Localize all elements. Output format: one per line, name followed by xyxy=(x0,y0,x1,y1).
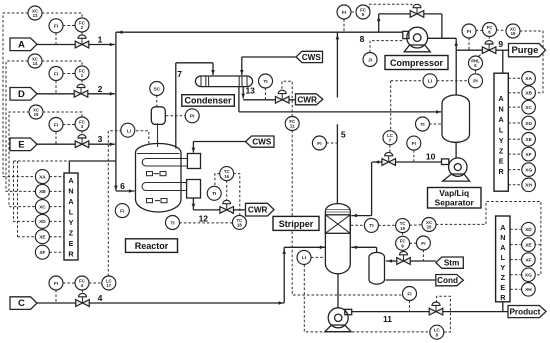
dashed signal LI to LC7 xyxy=(390,81,392,131)
svg-text:A: A xyxy=(498,94,503,103)
svg-text:10: 10 xyxy=(426,152,436,162)
svg-text:3: 3 xyxy=(98,134,103,144)
valve reactor CWR xyxy=(220,200,234,213)
dashed signal PHL6 to PI xyxy=(475,70,477,74)
svg-text:A: A xyxy=(500,243,505,252)
svg-text:L: L xyxy=(499,125,504,134)
valve separator underflow xyxy=(382,152,396,165)
instrument analyzer-left XE xyxy=(35,230,49,244)
flag feed A xyxy=(10,38,37,51)
instrument FC3 xyxy=(75,117,89,131)
wire condensate line xyxy=(386,279,436,281)
svg-text:Compressor: Compressor xyxy=(390,58,444,68)
instrument FC1 xyxy=(75,66,89,80)
separator pump base xyxy=(443,174,470,181)
stripper pump base xyxy=(325,325,351,332)
wire recycle header stream 8 xyxy=(116,31,403,33)
instrument XC13 xyxy=(28,6,42,20)
dashed signal FI-D to FC1 xyxy=(63,73,76,75)
instrument analyzer2 XE xyxy=(522,238,536,252)
instrument analyzer2 XD xyxy=(522,222,536,236)
instrument FI product xyxy=(403,287,417,301)
reactor coil upper xyxy=(142,159,187,167)
svg-text:15: 15 xyxy=(34,112,39,117)
svg-text:19: 19 xyxy=(511,31,516,36)
dashed signal XF route xyxy=(17,161,19,237)
flag CWS reactor xyxy=(246,136,275,147)
dashed signal FI purge stub xyxy=(468,38,470,50)
valve purge xyxy=(482,41,496,54)
svg-text:CWS: CWS xyxy=(302,53,322,62)
svg-text:XB: XB xyxy=(525,91,532,97)
condenser shell xyxy=(195,76,252,87)
dashed signal TC18 to TC16 xyxy=(234,174,240,216)
instrument FI stream2 xyxy=(49,67,63,81)
dashed signal FC4 to LC17 xyxy=(89,282,102,284)
dashed signal FI product stub xyxy=(409,301,411,311)
instrument analyzer2 XF xyxy=(522,253,536,267)
svg-text:Purge: Purge xyxy=(511,45,538,56)
wire stream 7 reactor to condenser xyxy=(175,63,177,149)
dashed signal FC11 to CWR valve xyxy=(282,81,292,116)
dashed signal FI-C to FC4 xyxy=(63,282,76,284)
instrument FI stream3 xyxy=(49,118,63,132)
svg-text:12: 12 xyxy=(199,214,209,224)
instrument JI compressor xyxy=(363,53,377,67)
svg-text:XF: XF xyxy=(39,250,45,256)
flag CWR condenser xyxy=(296,94,323,105)
instrument analyzer1 XG xyxy=(522,163,536,177)
svg-text:LI: LI xyxy=(127,129,132,135)
instrument LC17 xyxy=(102,276,116,290)
agitator motor xyxy=(151,107,165,125)
svg-text:TI: TI xyxy=(212,191,217,197)
stripper column xyxy=(325,204,350,274)
dashed signal stub to XE2 xyxy=(535,244,541,246)
instrument analyzer-left XB xyxy=(35,184,49,198)
dashed signal FC4 to valve xyxy=(82,290,84,297)
reboiler vessel xyxy=(369,252,385,284)
wire stripper bottoms to pump xyxy=(337,274,339,309)
wire reboiler return to stripper xyxy=(351,246,376,248)
instrument FC11 xyxy=(285,117,299,131)
svg-text:R: R xyxy=(68,249,74,258)
svg-text:TI: TI xyxy=(420,122,425,128)
svg-text:Product: Product xyxy=(509,308,540,317)
instrument PI separator xyxy=(469,74,483,88)
reactor CW lower box xyxy=(187,180,201,199)
svg-text:1: 1 xyxy=(98,35,103,45)
instrument FI stream10 xyxy=(407,136,421,150)
svg-text:PI: PI xyxy=(190,114,195,120)
instrument TC19 xyxy=(396,219,410,233)
dashed signal analyzer crossfeed header xyxy=(14,160,70,162)
instrument XC15 xyxy=(29,105,43,119)
svg-text:FI: FI xyxy=(317,141,322,147)
dashed signal XC14 to FC1 xyxy=(42,61,82,66)
dashed signal XC14-XB route xyxy=(6,61,36,191)
svg-text:A: A xyxy=(68,197,73,206)
label box Condenser xyxy=(182,95,235,107)
svg-text:LI: LI xyxy=(428,79,433,85)
svg-text:XD: XD xyxy=(39,219,46,225)
svg-text:TI: TI xyxy=(263,79,268,85)
wire analyzer2 sample xyxy=(502,302,504,312)
condenser tubes xyxy=(205,76,207,87)
svg-text:A: A xyxy=(500,223,505,232)
dashed signal XC19 to XB xyxy=(520,31,543,93)
instrument FI stream4 xyxy=(49,276,63,290)
instrument TI separator xyxy=(416,117,430,131)
flag product xyxy=(508,306,546,318)
svg-text:CWR: CWR xyxy=(248,206,268,215)
wire purge line stream 9 xyxy=(456,49,482,51)
wire reactor coil out to CWR xyxy=(192,198,194,210)
dashed signal FC6 to XC19 xyxy=(496,29,506,32)
svg-text:XA: XA xyxy=(525,76,532,82)
svg-text:FI: FI xyxy=(412,141,417,147)
separator pump P2 xyxy=(449,158,467,176)
svg-text:Condenser: Condenser xyxy=(184,96,232,106)
dashed signal FC5 to bypass valve xyxy=(369,4,412,9)
wire stream 6 into reactor xyxy=(116,190,135,192)
svg-text:XA: XA xyxy=(39,174,46,180)
dashed signal XC15-XC route xyxy=(9,112,36,207)
analyzer box right-bottom xyxy=(496,216,510,302)
svg-text:XC: XC xyxy=(39,204,46,210)
instrument FC4 xyxy=(75,276,89,290)
wire separator vapor riser xyxy=(455,38,457,95)
svg-text:Z: Z xyxy=(501,273,506,282)
svg-text:R: R xyxy=(500,293,506,302)
instrument LC7 xyxy=(383,131,397,145)
dashed analyzer1 stubs xyxy=(508,77,522,79)
dashed signal XC13 to FC2 xyxy=(42,13,82,18)
svg-text:FI: FI xyxy=(467,29,472,35)
svg-text:LI: LI xyxy=(302,255,307,261)
svg-text:Cond: Cond xyxy=(437,276,458,285)
dashed signal FI-E to FC3 xyxy=(63,124,76,126)
svg-text:4: 4 xyxy=(98,293,103,303)
reactor CW upper box xyxy=(187,154,200,169)
instrument FI stream8 xyxy=(337,5,351,19)
stripper pump nozzle xyxy=(345,309,352,314)
svg-text:XD: XD xyxy=(525,227,532,233)
dashed signal TI cond to line xyxy=(264,88,266,99)
wire condenser CW out to CWR xyxy=(242,87,244,99)
dashed signal FC1 to valve xyxy=(81,80,83,87)
dashed analyzer2 stubs xyxy=(510,228,521,230)
flag feed D xyxy=(10,88,37,101)
dashed signal FI-E to line xyxy=(55,132,57,144)
svg-text:Z: Z xyxy=(69,228,74,237)
valve condenser CWR xyxy=(275,90,289,103)
svg-text:FI: FI xyxy=(120,208,125,214)
svg-text:A: A xyxy=(498,115,503,124)
svg-text:R: R xyxy=(498,167,504,176)
wire CWS to reactor coil xyxy=(193,141,245,143)
wire feed A stream 1 xyxy=(37,44,75,46)
stripper pump P1 xyxy=(328,308,348,328)
label box Compressor xyxy=(385,56,448,70)
dashed signal XD route xyxy=(14,161,36,221)
svg-text:14: 14 xyxy=(33,61,38,66)
wire separator underflow to pump xyxy=(455,142,457,159)
instrument FI purge xyxy=(462,24,476,38)
dashed signal LC8 to product valve xyxy=(437,296,451,332)
instrument analyzer-left XD xyxy=(35,214,49,228)
dashed signal XC15 to FC3 xyxy=(43,112,82,117)
wire condenser outlet to separator xyxy=(238,87,240,112)
svg-text:L: L xyxy=(69,208,74,217)
wire stream 11 product line xyxy=(352,311,430,313)
svg-text:XE: XE xyxy=(525,137,532,143)
svg-text:XF: XF xyxy=(525,257,531,263)
dashed signal LI to reactor top xyxy=(136,131,149,144)
dashed signal XE stub xyxy=(18,236,36,238)
instrument FC2 xyxy=(75,18,89,32)
svg-text:TI: TI xyxy=(369,223,374,229)
dashed signal FI8 stub xyxy=(343,19,345,31)
svg-text:11: 11 xyxy=(383,314,392,324)
valve compressor bypass xyxy=(410,4,424,17)
dashed signal TI sep stub xyxy=(429,123,441,125)
dashed signal FI-D to line xyxy=(55,81,57,93)
compressor nozzle xyxy=(403,31,409,38)
instrument analyzer1 XB xyxy=(522,86,536,100)
instrument TI coil xyxy=(207,186,221,200)
flag feed C xyxy=(10,297,37,310)
svg-text:13: 13 xyxy=(245,85,255,95)
svg-text:5: 5 xyxy=(341,130,346,140)
svg-text:7: 7 xyxy=(177,69,182,79)
instrument FI stream6 xyxy=(115,204,129,218)
svg-text:18: 18 xyxy=(237,223,242,228)
svg-text:9: 9 xyxy=(498,39,503,49)
dashed signal TC19 to FC9 xyxy=(402,232,404,236)
instrument analyzer-left XF xyxy=(35,245,49,259)
svg-text:XE: XE xyxy=(39,235,46,241)
reactor baffles xyxy=(147,172,153,176)
wire feed C stream 4 xyxy=(37,302,76,304)
svg-text:XE: XE xyxy=(525,242,532,248)
instrument PI reactor xyxy=(185,109,199,123)
svg-text:FI: FI xyxy=(342,10,347,16)
instrument TC16 xyxy=(220,167,234,181)
svg-text:2: 2 xyxy=(98,84,103,94)
svg-text:FI: FI xyxy=(54,24,59,30)
instrument analyzer-left XC xyxy=(35,200,49,214)
svg-text:CWS: CWS xyxy=(252,138,272,147)
wire stream 5 stripper overhead xyxy=(336,32,338,97)
instrument FI steam xyxy=(416,236,430,250)
valve feed E xyxy=(75,135,89,148)
dashed signal LI separator row xyxy=(391,80,469,82)
dashed signal XC13-XA route xyxy=(3,13,36,177)
dashed signal FI-A to FC2 xyxy=(63,25,76,27)
flag CWS condenser xyxy=(296,51,323,62)
instrument TI condenser xyxy=(259,74,273,88)
instrument FI stream5 xyxy=(312,136,326,150)
label box Reactor xyxy=(126,239,178,253)
instrument analyzer2 XH xyxy=(522,283,536,297)
svg-text:16: 16 xyxy=(224,174,229,179)
label box Vap/Liq Separator xyxy=(428,188,482,209)
instrument LI reactor xyxy=(121,123,135,137)
svg-text:TI: TI xyxy=(170,220,175,226)
dashed signal FC9 to FI xyxy=(409,242,416,244)
dashed signal FI8 to FC5 xyxy=(351,11,356,13)
wire valve to stripper feed xyxy=(372,161,382,163)
flag condensate xyxy=(436,275,464,286)
wire analyzer1 sample xyxy=(502,50,504,75)
instrument LI separator xyxy=(423,74,437,88)
svg-text:13: 13 xyxy=(33,13,38,18)
dashed signal SC to agitator xyxy=(156,95,158,107)
dashed signal LI stripper stub xyxy=(311,256,325,258)
dashed signal FI steam stub xyxy=(422,250,424,261)
svg-text:XF: XF xyxy=(526,152,532,158)
svg-text:XG: XG xyxy=(525,167,532,173)
dashed signal FI5 stub xyxy=(326,142,337,144)
separator pump nozzle xyxy=(442,159,449,165)
wire stream 4 into stripper xyxy=(284,246,325,248)
instrument XC20 xyxy=(422,218,436,232)
dashed signal FI-C to line xyxy=(55,290,57,303)
compressor base xyxy=(404,45,430,52)
valve feed D xyxy=(74,84,88,97)
valve feed A xyxy=(75,35,89,48)
instrument FC5 xyxy=(356,5,370,19)
dashed signal FC9 to valve xyxy=(402,250,405,252)
dashed signal TC16 to valve xyxy=(226,180,228,201)
flag purge xyxy=(509,44,546,57)
valve product xyxy=(429,302,443,315)
instrument analyzer1 XH xyxy=(522,178,536,192)
instrument XC14 xyxy=(28,54,42,68)
instrument analyzer1 XD xyxy=(522,116,536,130)
wire feed E stream 3 xyxy=(37,143,75,145)
dashed signal stripper wall to TI xyxy=(351,224,365,226)
svg-text:SC: SC xyxy=(153,86,160,92)
dashed signal FI-A to line xyxy=(55,33,57,44)
svg-text:20: 20 xyxy=(427,225,432,230)
instrument TI stripper xyxy=(364,218,378,232)
dashed signal JI to compressor xyxy=(370,41,403,53)
wire stream 10 pump to valve xyxy=(396,161,442,163)
instrument XC19 xyxy=(506,24,520,38)
svg-text:XB: XB xyxy=(39,189,46,195)
instrument TC18 xyxy=(232,215,246,229)
svg-text:C: C xyxy=(18,298,25,309)
compressor C1 xyxy=(407,27,428,48)
dashed signal FC6 to purge valve xyxy=(488,36,490,42)
svg-text:E: E xyxy=(18,139,24,150)
svg-text:19: 19 xyxy=(400,226,405,231)
svg-text:E: E xyxy=(69,239,74,248)
svg-text:8: 8 xyxy=(360,34,365,44)
dashed signal agitator to PI xyxy=(166,115,186,117)
wire compressor suction xyxy=(428,37,457,39)
svg-text:A: A xyxy=(68,176,73,185)
instrument SC agitator xyxy=(150,82,164,96)
svg-text:E: E xyxy=(500,283,505,292)
svg-text:Separator: Separator xyxy=(435,197,475,207)
svg-text:N: N xyxy=(498,104,503,113)
dashed signal FC3 to valve xyxy=(81,131,83,138)
analyzer box left xyxy=(64,173,78,260)
svg-text:XH: XH xyxy=(525,287,532,293)
svg-text:D: D xyxy=(18,89,25,100)
dashed signal XC20 to analyzer2 xyxy=(436,202,541,275)
dashed signal FI to FC6 xyxy=(476,29,483,32)
svg-text:Stripper: Stripper xyxy=(279,219,314,229)
dashed signal LI reactor to LC17 xyxy=(108,131,122,276)
valve feed C xyxy=(76,293,90,306)
instrument PHL6 xyxy=(469,56,483,70)
svg-text:FI: FI xyxy=(421,241,426,247)
instrument FI stream1 xyxy=(49,19,63,33)
svg-text:FI: FI xyxy=(407,291,412,297)
svg-text:XH: XH xyxy=(525,183,532,189)
dashed signal FI10 stub xyxy=(413,150,415,161)
svg-text:PI: PI xyxy=(473,79,478,85)
wire left analyzer sample from stream 6 xyxy=(69,160,116,162)
dashed signal LI stripper to LC8 xyxy=(304,265,429,332)
instrument FC9 xyxy=(396,236,410,250)
wire feed D stream 2 xyxy=(37,93,74,95)
svg-text:N: N xyxy=(500,233,505,242)
svg-text:XD: XD xyxy=(525,121,532,127)
svg-text:Y: Y xyxy=(500,263,505,272)
valve steam xyxy=(397,251,411,264)
svg-text:Y: Y xyxy=(69,218,74,227)
svg-text:L: L xyxy=(501,253,506,262)
instrument analyzer1 XF xyxy=(522,147,536,161)
svg-text:N: N xyxy=(68,187,73,196)
flag feed E xyxy=(10,138,37,151)
instrument LI stripper xyxy=(297,250,311,264)
analyzer box right-top xyxy=(494,73,508,191)
instrument analyzer2 XG xyxy=(522,268,536,282)
dashed signal FC2 to valve xyxy=(81,32,83,38)
svg-text:JI: JI xyxy=(368,57,373,63)
dashed signal reactor TI to TC18 xyxy=(179,222,232,224)
svg-text:Stm: Stm xyxy=(444,259,459,268)
svg-text:11: 11 xyxy=(290,124,295,129)
svg-text:Y: Y xyxy=(499,136,504,145)
wire compressor bypass xyxy=(378,14,380,32)
dashed signal TI to TC19 xyxy=(378,224,396,226)
svg-text:E: E xyxy=(499,157,504,166)
instrument FC6 xyxy=(483,23,497,37)
wire steam line xyxy=(410,260,435,262)
svg-text:Reactor: Reactor xyxy=(135,241,169,251)
dashed signal TC19 to XC20 xyxy=(409,224,422,227)
svg-text:CWR: CWR xyxy=(297,95,317,104)
dashed analyzer-left stubs xyxy=(49,176,64,178)
svg-text:XC: XC xyxy=(525,105,532,111)
svg-text:A: A xyxy=(18,39,25,50)
svg-text:FI: FI xyxy=(54,281,59,287)
instrument analyzer1 XC xyxy=(522,100,536,114)
svg-text:XG: XG xyxy=(525,273,532,279)
wire feed mix riser down to reactor xyxy=(115,32,117,190)
reactor vessel xyxy=(136,144,182,212)
stripper packing xyxy=(325,215,350,234)
dashed signal PHL6 to valve xyxy=(479,51,485,57)
instrument analyzer-left XA xyxy=(35,170,49,184)
